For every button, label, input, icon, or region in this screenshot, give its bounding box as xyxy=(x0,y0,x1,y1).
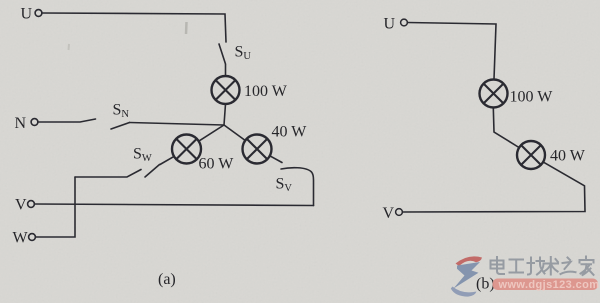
watermark chinese text xyxy=(491,257,594,276)
svg-text:100 W: 100 W xyxy=(510,89,554,106)
watermark logo red swoosh xyxy=(456,256,483,266)
node branch to SN xyxy=(130,123,225,126)
watermark banner xyxy=(493,279,599,291)
char dian xyxy=(491,257,505,274)
terminal V (b) xyxy=(396,209,403,216)
terminal N xyxy=(31,119,38,126)
char shu xyxy=(544,257,559,275)
char zhi xyxy=(561,258,576,275)
switch SN blade xyxy=(111,123,130,130)
lamp 40W (a) xyxy=(243,135,272,164)
watermark logo bottom swoosh xyxy=(451,287,477,297)
watermark logo sigma xyxy=(454,262,481,289)
wire V lead xyxy=(34,204,313,206)
lamp 100W (b) xyxy=(480,80,508,108)
wire U (b) xyxy=(407,23,496,80)
wire W fixed contact xyxy=(75,170,141,178)
lamp 100W (a) xyxy=(212,76,240,104)
lamp 40W (b) xyxy=(517,141,545,169)
terminal V xyxy=(28,201,35,208)
wire W vertical xyxy=(35,177,75,237)
switch SU blade xyxy=(219,44,226,64)
svg-text:V: V xyxy=(15,197,27,214)
wire lamp60 to SW xyxy=(160,156,174,164)
wire 40W to V (b) xyxy=(402,162,585,212)
svg-text:N: N xyxy=(15,115,27,132)
svg-text:100 W: 100 W xyxy=(244,83,288,100)
svg-text:(b): (b) xyxy=(476,276,495,293)
char ji xyxy=(528,258,545,275)
wire lamp to node xyxy=(224,104,226,125)
svg-text:40 W: 40 W xyxy=(550,148,586,165)
svg-text:www.dgjs123.com: www.dgjs123.com xyxy=(498,279,600,291)
svg-text:V: V xyxy=(383,205,395,222)
node branch to lamp 40W xyxy=(224,125,245,141)
svg-text:(a): (a) xyxy=(158,271,176,288)
wire lamp40 to SV blade xyxy=(270,156,282,163)
char jia xyxy=(580,257,594,276)
svg-text:W: W xyxy=(13,230,29,247)
terminal U (b) xyxy=(401,19,408,26)
terminal U (a) xyxy=(35,10,42,17)
svg-text:60 W: 60 W xyxy=(199,156,235,173)
node branch to lamp 60W xyxy=(199,125,224,141)
wire between lamps (b) xyxy=(493,108,519,148)
wire N lead xyxy=(38,119,96,122)
char gong xyxy=(510,260,524,273)
lamp 60W xyxy=(172,135,201,164)
svg-text:U: U xyxy=(21,6,33,23)
faint scan smudge xyxy=(185,22,188,34)
svg-text:40 W: 40 W xyxy=(272,124,308,141)
wire U top xyxy=(42,13,226,42)
wire SU to lamp xyxy=(225,65,227,77)
terminal W xyxy=(29,234,36,241)
SV fixed contact xyxy=(281,168,314,206)
switch SW blade xyxy=(145,165,160,178)
svg-text:U: U xyxy=(384,16,396,33)
